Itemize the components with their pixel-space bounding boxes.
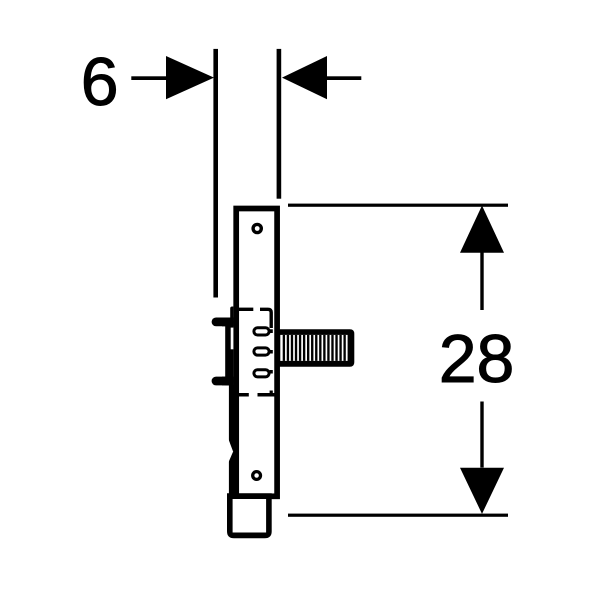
anchor foot square [227, 493, 272, 538]
svg-text:6: 6 [81, 44, 119, 120]
threaded bolt body [279, 329, 354, 367]
clamp upper strip [230, 307, 233, 319]
rail profile outline [236, 209, 277, 497]
bottom mounting hole [253, 472, 261, 480]
arrowhead pointing right (for 6) [166, 56, 214, 99]
hidden slider bottom edge (dashed) [236, 393, 249, 397]
extension line top (for 28) [288, 204, 508, 207]
extension line A (left face) [213, 49, 218, 298]
slot oval 2 [254, 348, 269, 355]
slot oval 1 [254, 328, 269, 335]
dimension leader line right (for 6) [326, 76, 361, 80]
arrowhead pointing left (for 6) [282, 56, 327, 99]
clamp lower strip [229, 385, 235, 495]
dimension arrow up (for 28) [460, 206, 504, 253]
weld notch (white wedge) [227, 439, 233, 462]
hidden slider top edge (dashed) [239, 308, 253, 311]
svg-text:28: 28 [439, 321, 515, 397]
dimension leader line left (for 6) [131, 76, 171, 80]
top mounting hole [253, 224, 261, 232]
extension line bottom (for 28) [288, 514, 508, 517]
clamp bottom pin [212, 377, 234, 386]
clamp plate [225, 318, 233, 386]
slit between clamp and rail (white) [231, 328, 234, 350]
slot oval 3 [254, 370, 269, 377]
bolt thread window (white) [280, 335, 347, 361]
bolt threads [283, 335, 346, 361]
hidden slider top-right corner (solid, rounded) [260, 309, 271, 328]
hidden slider right edge dashes [270, 329, 273, 333]
extension line B (right face) [277, 49, 282, 199]
dimension arrow down (for 28) [480, 402, 483, 468]
clamp top pin [212, 318, 234, 327]
